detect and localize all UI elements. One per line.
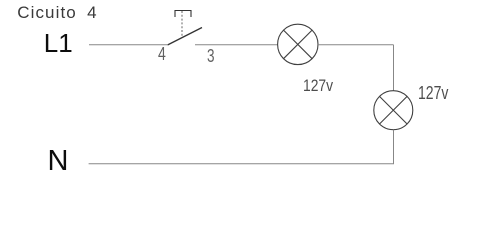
wire N bus xyxy=(89,163,394,165)
node L1 label xyxy=(44,28,73,59)
pin label 4 xyxy=(158,44,166,65)
wire corner down to lamp E2 xyxy=(393,45,395,91)
wire L1 to switch pin 4 xyxy=(89,44,167,46)
value label 127v (lamp E1) xyxy=(303,77,333,96)
switch S1 push-button actuator xyxy=(175,11,191,18)
value label 127v (lamp E2) xyxy=(418,83,448,104)
schematic wiring layer xyxy=(0,0,489,189)
switch S1 lever xyxy=(168,28,203,46)
lamp E1 circle xyxy=(278,24,318,64)
title "Cicuito 4" xyxy=(17,3,98,23)
lamp E2 cross xyxy=(380,96,408,124)
lamp E1 cross xyxy=(284,30,313,59)
wire lamp E2 to N line xyxy=(393,130,395,164)
pin label 3 xyxy=(207,46,215,67)
wire lamp E1 to corner xyxy=(318,44,394,46)
lamp E2 circle xyxy=(374,91,413,130)
wire switch pin 3 to lamp E1 xyxy=(195,44,278,46)
switch S1 actuator dashed link xyxy=(181,11,183,38)
node N label xyxy=(48,145,69,178)
